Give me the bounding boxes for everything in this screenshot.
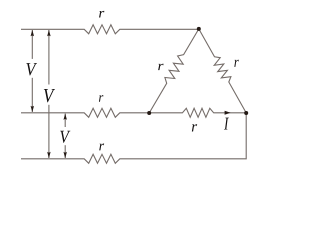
arrowhead line B up [47,30,51,36]
label I current [224,118,229,130]
dimension line V mid-bot upper segment [64,114,66,127]
node delta bottom-right [244,111,248,115]
dimension line V top-mid lower segment [31,78,33,112]
label r delta right leg [234,60,238,67]
dimension line V top-mid upper segment [31,30,33,59]
arrowhead line A up [31,30,35,36]
arrowhead line A down [31,106,35,112]
label r delta left leg [158,64,163,70]
label r top resistor [99,11,104,18]
resistor r delta left leg [149,29,199,113]
wire middle feeder with resistor [21,108,149,117]
arrowhead line C up [63,114,66,120]
arrowhead line B down [47,152,51,158]
resistor r delta bottom leg [149,108,246,117]
node top apex [197,27,201,31]
arrowhead current I [225,111,231,115]
dimension line V top-bot upper segment [48,30,50,85]
node delta bottom-left [147,111,151,115]
label V line B [44,89,55,102]
wire bottom feeder with resistor and right riser [21,113,246,163]
label r bottom resistor [99,144,104,151]
dimension line V mid-bot lower segment [64,145,66,158]
label V line A [26,63,37,75]
dimension line V top-bot lower segment [48,105,50,158]
label V line C [60,131,70,143]
wire top feeder with resistor [21,25,199,34]
resistor r delta right leg [199,29,246,113]
label r delta bottom leg [192,124,197,131]
label r middle resistor [99,95,103,102]
arrowhead line C down [63,152,66,158]
